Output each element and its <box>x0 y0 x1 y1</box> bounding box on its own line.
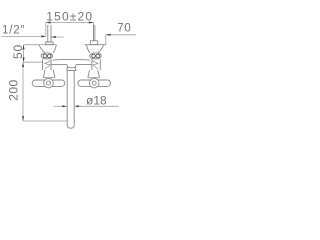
dim d18 right leader <box>79 105 119 107</box>
dim 150 right arrow <box>89 22 94 24</box>
right hub dot B <box>96 54 100 58</box>
left body zigzag <box>45 61 51 70</box>
dim 1/2" leader line <box>2 35 43 37</box>
right bell top <box>85 44 106 46</box>
dim 200 bottom arrow <box>22 116 24 121</box>
dim 200 bottom extension <box>23 120 67 122</box>
left hub ellipse <box>41 53 53 59</box>
left hub dot A <box>43 54 47 58</box>
dim d18 left arrow <box>62 105 67 107</box>
spout tee <box>67 65 76 68</box>
left skirt <box>43 70 55 78</box>
dim 50 top arrow <box>23 45 25 50</box>
right valve body <box>91 59 93 70</box>
svg-text:ø18: ø18 <box>86 93 107 107</box>
left handle cap inner <box>47 81 51 85</box>
dim d18 left leader <box>54 105 63 107</box>
body tube bottom edge right <box>76 64 92 66</box>
svg-text:70: 70 <box>117 22 131 34</box>
right handle cap <box>89 78 99 88</box>
spout pipe right <box>73 71 75 125</box>
body tube bottom edge left <box>51 64 67 66</box>
right bell slopes <box>98 45 104 53</box>
dim 200 line <box>22 62 24 121</box>
body tube top edge <box>53 58 90 61</box>
dim 1/2" arrow right-pointing <box>41 35 46 37</box>
left bell slopes <box>39 45 45 53</box>
left collar <box>46 42 53 45</box>
dim 150 left arrow <box>46 22 51 24</box>
svg-text:50: 50 <box>11 44 25 59</box>
left handle bar <box>32 80 65 86</box>
dim 50 bottom arrow <box>23 57 25 62</box>
dim 150 left extension <box>45 23 47 37</box>
left handle cap <box>44 78 54 88</box>
dim d18 right arrow <box>74 105 79 107</box>
dim 150 right extension <box>93 23 95 41</box>
right body zigzag <box>92 61 98 70</box>
right collar <box>90 41 97 45</box>
dim 50 top extension <box>24 44 57 46</box>
right hub ellipse <box>90 53 102 59</box>
left inlet pipe <box>47 25 49 42</box>
dim 70 line <box>106 34 136 36</box>
svg-text:150±20: 150±20 <box>46 10 93 24</box>
svg-text:1/2″: 1/2″ <box>2 25 25 37</box>
right handle bar <box>78 80 111 86</box>
right inlet pipe <box>93 25 95 41</box>
dim 50 line <box>23 45 25 63</box>
left valve body <box>42 59 44 70</box>
spout pipe bottom cap <box>67 125 74 128</box>
right hub dot A <box>92 54 96 58</box>
svg-text:200: 200 <box>7 79 21 101</box>
dim 70 extension <box>105 35 107 45</box>
dim 1/2" right arrow tail <box>52 36 64 38</box>
dim 200 top arrow <box>22 62 24 67</box>
right handle cap inner <box>92 81 96 85</box>
spout nut <box>67 68 76 71</box>
left hub dot B <box>47 54 51 58</box>
dim 150 line <box>46 22 94 24</box>
dim 1/2" arrow left-pointing <box>51 36 56 38</box>
dim 70 arrow <box>106 34 111 36</box>
spout pipe left <box>66 71 68 125</box>
right skirt <box>88 70 100 78</box>
dim 50 bottom extension <box>24 61 43 63</box>
